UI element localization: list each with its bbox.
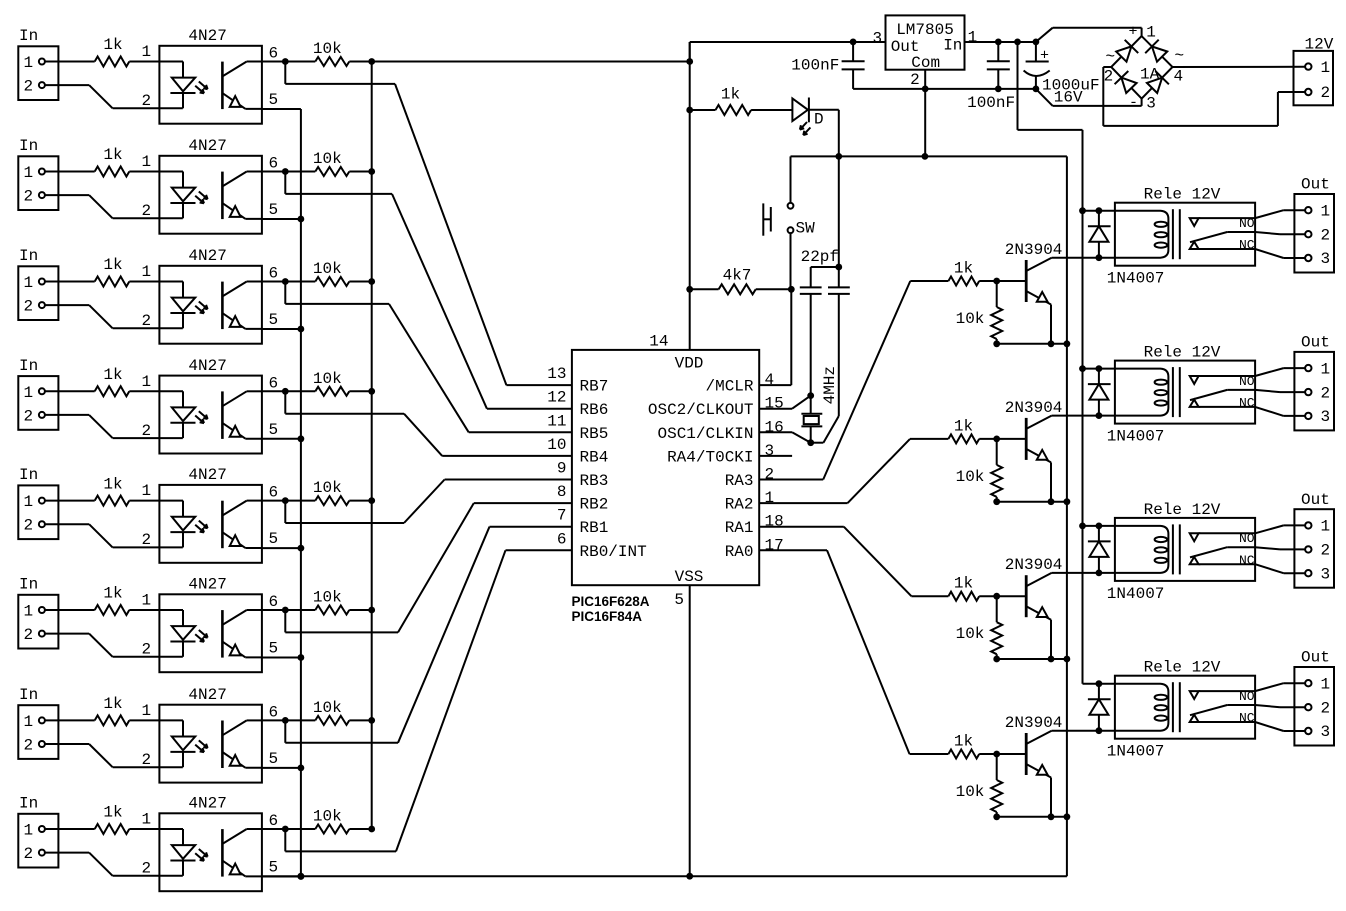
svg-text:In: In	[19, 137, 38, 155]
wire pullup bus to +5V	[372, 61, 690, 63]
svg-text:1: 1	[142, 43, 152, 61]
resistor R13 10k pullup	[315, 277, 349, 286]
junction base node 2	[993, 436, 1000, 443]
svg-text:4N27: 4N27	[188, 137, 226, 155]
svg-text:In: In	[19, 576, 38, 594]
svg-text:Rele 12V: Rele 12V	[1144, 186, 1221, 204]
bridge diode bottom-right	[1147, 78, 1162, 93]
driver 4 ground line	[997, 816, 1067, 818]
svg-text:10k: 10k	[956, 625, 985, 643]
wire NO to J13.1	[1255, 683, 1284, 691]
wire PIC RA3 to driver 1	[759, 479, 823, 481]
wire Q3 collector to relay coil	[1052, 572, 1115, 574]
svg-text:1: 1	[24, 493, 34, 511]
svg-text:1: 1	[24, 164, 34, 182]
wire J6.2 to U6 pin2	[45, 633, 89, 635]
svg-text:17: 17	[765, 536, 784, 554]
svg-text:1: 1	[24, 822, 34, 840]
svg-text:In: In	[19, 466, 38, 484]
wire VSS pin 5 to ground rail	[689, 585, 691, 876]
svg-text:RA0: RA0	[725, 543, 754, 561]
wire node to R18	[285, 828, 315, 830]
svg-text:RB6: RB6	[580, 401, 609, 419]
junction diode bottom 2	[1096, 412, 1103, 419]
svg-text:6: 6	[269, 265, 279, 283]
svg-text:Out: Out	[1301, 176, 1330, 194]
U6 phototransistor	[221, 610, 224, 658]
U5 LED emission arrows	[199, 521, 208, 529]
junction emitter ground 2	[1048, 498, 1055, 505]
relay RL4 core	[1172, 682, 1174, 732]
wire J2.2 to U2 pin2	[45, 194, 89, 196]
svg-text:1k: 1k	[954, 575, 973, 593]
resistor R20 1k base	[948, 434, 979, 443]
wire U3 pin5 to ground bus	[262, 328, 301, 330]
relay RL4 coil	[1115, 684, 1169, 731]
wire ground to bridge negative	[1036, 89, 1053, 106]
svg-text:3: 3	[1146, 94, 1156, 112]
input connector J3	[18, 266, 58, 320]
optocoupler U2 4N27 body	[159, 156, 262, 234]
svg-text:1k: 1k	[103, 36, 122, 54]
resistor R11 10k pullup	[315, 57, 349, 66]
svg-text:RB3: RB3	[580, 472, 609, 490]
bridge diode bottom-left	[1121, 78, 1136, 93]
wire NC to J11.3	[1255, 407, 1284, 416]
svg-text:10k: 10k	[956, 468, 985, 486]
svg-text:5: 5	[269, 91, 279, 109]
wire MCLR node to /MCLR pin4	[790, 289, 792, 385]
wire VDD pin 14 to +5V	[689, 42, 691, 350]
wire J5.2 to U5 pin2	[45, 523, 89, 525]
junction ground bus 6	[298, 654, 305, 661]
wire R7 to opto U7 pin1	[129, 719, 159, 721]
driver 2 ground line	[997, 501, 1067, 503]
resistor R24 10k	[996, 439, 998, 465]
svg-text:RB4: RB4	[580, 448, 609, 466]
svg-text:2: 2	[142, 422, 152, 440]
node opto8 collector	[282, 826, 289, 833]
wire Q3 emitter to ground	[1050, 620, 1052, 659]
junction emitter ground 3	[1048, 656, 1055, 663]
svg-text:Rele 12V: Rele 12V	[1144, 659, 1221, 677]
junction on +5V pullup bus 2	[368, 168, 375, 175]
svg-text:10k: 10k	[313, 479, 342, 497]
junction +5V at VDD column	[686, 58, 693, 65]
svg-text:VDD: VDD	[675, 354, 704, 372]
junction C2 top	[995, 39, 1002, 46]
svg-text:10k: 10k	[313, 370, 342, 388]
wire R22 to base node	[979, 753, 997, 755]
wire U10 pin2 Com	[924, 70, 926, 157]
wire R5 to opto U5 pin1	[129, 500, 159, 502]
svg-text:10k: 10k	[956, 783, 985, 801]
diode D2 1N4007	[1098, 211, 1100, 258]
wire regulator input rail	[965, 41, 1036, 43]
transistor Q4 2N3904	[1025, 733, 1028, 775]
junction on +5V pullup bus 1	[368, 58, 375, 65]
svg-text:RA2: RA2	[725, 496, 754, 514]
wire OSC2 pin15	[759, 408, 792, 410]
svg-text:1: 1	[1321, 518, 1331, 536]
svg-text:1: 1	[142, 702, 152, 720]
svg-text:1k: 1k	[103, 146, 122, 164]
svg-text:2: 2	[24, 188, 34, 206]
optocoupler U8 4N27 body	[159, 813, 262, 891]
svg-text:1N4007: 1N4007	[1107, 585, 1165, 603]
junction diode top 2	[1096, 365, 1103, 372]
optocoupler U5 4N27 body	[159, 485, 262, 563]
U5 phototransistor	[221, 501, 224, 549]
svg-text:6: 6	[269, 703, 279, 721]
junction diode top 3	[1096, 523, 1103, 530]
svg-text:10k: 10k	[313, 808, 342, 826]
relay RL1 body	[1115, 203, 1255, 266]
svg-text:1k: 1k	[103, 475, 122, 493]
wire bridge AC4 to J9.1	[1173, 66, 1306, 68]
junction VSS ground rail	[686, 873, 693, 880]
svg-text:PIC16F84A: PIC16F84A	[572, 609, 643, 624]
wire opto8 output to PIC pin	[284, 829, 286, 851]
wire U6 pin5 to ground bus	[262, 657, 301, 659]
input connector J9 12V	[1294, 51, 1334, 105]
resistor R17 1k	[716, 105, 752, 115]
svg-text:1k: 1k	[103, 585, 122, 603]
junction emitter ground 4	[1048, 813, 1055, 820]
svg-text:RB7: RB7	[580, 378, 609, 396]
junction +12V relay 3	[1079, 523, 1086, 530]
svg-text:1: 1	[24, 274, 34, 292]
wire common to J11.2	[1255, 390, 1280, 392]
junction 10k bottom 2	[993, 498, 1000, 505]
wire node to R14	[285, 390, 315, 392]
wire Q1 emitter to ground	[1050, 305, 1052, 344]
capacitor C5 22pf	[828, 286, 850, 288]
wire Q4 emitter to ground	[1050, 778, 1052, 817]
svg-text:Rele 12V: Rele 12V	[1144, 344, 1221, 362]
svg-text:10k: 10k	[313, 150, 342, 168]
optocoupler U4 4N27 body	[159, 376, 262, 454]
RA4/T0CKI pin3 stub	[759, 455, 792, 457]
U6 LED emission arrows	[199, 630, 208, 638]
resistor R21 1k base	[948, 592, 979, 601]
wire +5V to R18	[690, 288, 719, 290]
svg-text:3: 3	[1321, 250, 1331, 268]
wire R8 to opto U8 pin1	[129, 828, 159, 830]
wire U8 pin5 to ground bus	[262, 876, 301, 878]
junction Com pin2	[922, 86, 929, 93]
capacitor C1 100nF	[852, 42, 854, 61]
wire C5 bottom to OSC1 node	[838, 294, 840, 416]
wire J3.2 to U3 pin2	[45, 304, 89, 306]
svg-text:In: In	[19, 27, 38, 45]
wire +12V bus to relay RL2 coil	[1083, 368, 1115, 370]
junction ground bus driver 4	[1064, 813, 1071, 820]
junction ground bus driver 2	[1064, 498, 1071, 505]
wire U8 pin6 to node	[262, 828, 285, 830]
svg-text:1N4007: 1N4007	[1107, 428, 1165, 446]
wire opto5 output to PIC pin	[284, 501, 286, 523]
input connector J2	[18, 156, 58, 210]
svg-text:In: In	[19, 795, 38, 813]
svg-text:2N3904: 2N3904	[1005, 399, 1063, 417]
resistor R5 1k	[95, 496, 130, 506]
ground bus left vertical	[300, 109, 302, 876]
svg-text:3: 3	[765, 442, 775, 460]
wire U7 pin5 to ground bus	[262, 767, 301, 769]
svg-text:6: 6	[269, 374, 279, 392]
svg-text:SW: SW	[796, 220, 816, 238]
svg-text:1N4007: 1N4007	[1107, 270, 1165, 288]
svg-text:1: 1	[24, 54, 34, 72]
diode D5 1N4007	[1098, 684, 1100, 731]
capacitor C2 100nF	[997, 42, 999, 61]
wire PIC RA1 to driver 3	[759, 526, 844, 528]
svg-text:1: 1	[142, 811, 152, 829]
svg-text:6: 6	[269, 45, 279, 63]
svg-text:6: 6	[269, 593, 279, 611]
svg-text:5: 5	[269, 640, 279, 658]
transistor Q3 2N3904	[1025, 575, 1028, 617]
optocoupler U6 4N27 body	[159, 594, 262, 672]
output connector J12	[1294, 509, 1334, 588]
svg-text:1k: 1k	[103, 256, 122, 274]
svg-text:In: In	[19, 357, 38, 375]
junction diode bottom 4	[1096, 727, 1103, 734]
wire base node to Q4	[997, 753, 1026, 755]
resistor R25 10k	[996, 596, 998, 622]
wire U4 pin5 to ground bus	[262, 438, 301, 440]
input connector J1	[18, 46, 58, 100]
junction diode bottom 1	[1096, 254, 1103, 261]
svg-text:1: 1	[1321, 202, 1331, 220]
svg-text:16: 16	[765, 418, 784, 436]
relay RL2 armature	[1190, 390, 1227, 400]
U8 phototransistor	[221, 829, 224, 877]
svg-text:1: 1	[142, 482, 152, 500]
junction OSC1 node	[807, 439, 814, 446]
driver 3 ground line	[997, 658, 1067, 660]
svg-text:1k: 1k	[103, 804, 122, 822]
U8 LED emission arrows	[199, 849, 208, 857]
resistor R17 10k pullup	[315, 716, 349, 725]
relay RL1 core	[1172, 209, 1174, 259]
wire J8.2 to U8 pin2	[45, 852, 89, 854]
wire U4 pin6 to node	[262, 390, 285, 392]
optocoupler U3 4N27 body	[159, 266, 262, 344]
wire J7.2 to U7 pin2	[45, 743, 89, 745]
node opto6 collector	[282, 607, 289, 614]
svg-text:10k: 10k	[313, 589, 342, 607]
junction ground bus driver 1	[1064, 340, 1071, 347]
diode D4 1N4007	[1098, 526, 1100, 573]
svg-text:2: 2	[24, 517, 34, 535]
svg-text:1: 1	[1321, 675, 1331, 693]
ground line from Com	[791, 155, 1067, 157]
svg-text:NC: NC	[1239, 711, 1255, 726]
svg-text:2: 2	[142, 860, 152, 878]
junction +12V relay 1	[1079, 207, 1086, 214]
relay RL1 armature	[1190, 232, 1227, 242]
svg-text:15: 15	[765, 395, 784, 413]
resistor R19 1k base	[948, 277, 979, 286]
wire opto3 output to PIC pin	[284, 282, 286, 304]
svg-text:6: 6	[269, 812, 279, 830]
svg-text:RA3: RA3	[725, 472, 754, 490]
resistor R2 1k	[95, 167, 130, 177]
svg-text:2: 2	[24, 737, 34, 755]
wire Q1 collector to relay coil	[1052, 257, 1115, 259]
LED D1	[792, 99, 808, 122]
resistor R4 1k	[95, 386, 130, 396]
input connector J8	[18, 814, 58, 868]
svg-text:3: 3	[1321, 408, 1331, 426]
svg-text:8: 8	[557, 483, 567, 501]
junction base node 4	[993, 751, 1000, 758]
input connector J6	[18, 595, 58, 649]
wire U6 pin6 to node	[262, 609, 285, 611]
wire R14 to +5V bus	[349, 390, 371, 392]
U7 phototransistor	[221, 721, 224, 769]
U2 phototransistor	[221, 172, 224, 220]
resistor R3 1k	[95, 277, 130, 287]
svg-text:In: In	[19, 686, 38, 704]
svg-text:10k: 10k	[956, 310, 985, 328]
junction diode top 1	[1096, 207, 1103, 214]
resistor R15 10k pullup	[315, 496, 349, 505]
svg-text:1k: 1k	[954, 417, 973, 435]
input connector J7	[18, 705, 58, 759]
wire J4.1 to R4	[45, 390, 95, 392]
relay RL3 body	[1115, 518, 1255, 581]
svg-text:6: 6	[557, 530, 567, 548]
bottom ground rail	[262, 875, 1067, 877]
svg-text:2: 2	[1104, 67, 1114, 85]
wire Q2 collector to relay coil	[1052, 415, 1115, 417]
svg-text:NO: NO	[1239, 216, 1255, 231]
svg-text:+: +	[1040, 48, 1049, 65]
wire node to R16	[285, 609, 315, 611]
svg-text:1N4007: 1N4007	[1107, 743, 1165, 761]
junction 10k bottom 1	[993, 340, 1000, 347]
svg-text:/MCLR: /MCLR	[705, 378, 753, 396]
svg-text:3: 3	[872, 29, 882, 47]
svg-text:OSC1/CLKIN: OSC1/CLKIN	[657, 425, 753, 443]
svg-text:1: 1	[1321, 360, 1331, 378]
svg-text:10k: 10k	[313, 260, 342, 278]
wire node to R17	[285, 719, 315, 721]
svg-text:10k: 10k	[313, 40, 342, 58]
svg-text:4N27: 4N27	[188, 27, 226, 45]
U3 phototransistor	[221, 282, 224, 330]
junction 22pf top	[835, 264, 842, 271]
svg-text:3: 3	[1321, 565, 1331, 583]
wire U7 pin6 to node	[262, 719, 285, 721]
svg-text:RB2: RB2	[580, 496, 609, 514]
svg-text:PIC16F628A: PIC16F628A	[572, 594, 650, 609]
relay RL2 body	[1115, 361, 1255, 424]
svg-text:5: 5	[674, 591, 684, 609]
+12V bus	[1017, 42, 1019, 130]
junction diode top 4	[1096, 680, 1103, 687]
svg-text:2: 2	[1321, 542, 1331, 560]
wire Q2 emitter to ground	[1050, 462, 1052, 501]
node opto3 collector	[282, 278, 289, 285]
resistor R7 1k	[95, 715, 130, 725]
wire node to R12	[285, 171, 315, 173]
node opto2 collector	[282, 168, 289, 175]
junction +5V to R17	[686, 107, 693, 114]
svg-text:+: +	[1129, 24, 1138, 41]
relay RL3 NC contact	[1190, 557, 1199, 564]
svg-text:5: 5	[269, 859, 279, 877]
D1 emission arrows	[800, 122, 807, 130]
svg-text:2N3904: 2N3904	[1005, 714, 1063, 732]
resistor R26 10k	[996, 754, 998, 780]
wire R1 to opto U1 pin1	[129, 61, 159, 63]
svg-text:1: 1	[142, 373, 152, 391]
svg-text:4: 4	[1174, 67, 1184, 85]
svg-text:5: 5	[269, 750, 279, 768]
junction ground bus 5	[298, 545, 305, 552]
U1 internal LED	[159, 61, 183, 63]
U1 LED emission arrows	[199, 82, 208, 90]
svg-text:1k: 1k	[721, 86, 740, 104]
svg-text:2N3904: 2N3904	[1005, 241, 1063, 259]
svg-text:1: 1	[24, 603, 34, 621]
svg-text:2: 2	[142, 202, 152, 220]
svg-text:10k: 10k	[313, 699, 342, 717]
svg-text:1: 1	[24, 713, 34, 731]
wire NC to J10.3	[1255, 249, 1284, 258]
junction base node 3	[993, 593, 1000, 600]
svg-text:~: ~	[1175, 47, 1185, 65]
svg-text:2: 2	[24, 845, 34, 863]
svg-text:RB1: RB1	[580, 519, 609, 537]
wire +12V bus to relay RL4 coil	[1083, 683, 1115, 685]
bridge diode top-left	[1116, 46, 1131, 61]
wire node to R13	[285, 281, 315, 283]
svg-text:4MHz: 4MHz	[821, 366, 839, 404]
junction 10k bottom 4	[993, 813, 1000, 820]
svg-text:2N3904: 2N3904	[1005, 556, 1063, 574]
junction +12V relay 2	[1079, 365, 1086, 372]
svg-text:RA4/T0CKI: RA4/T0CKI	[667, 448, 753, 466]
U7 LED emission arrows	[199, 740, 208, 748]
svg-text:1: 1	[968, 28, 978, 46]
wire J1.1 to R1	[45, 61, 95, 63]
wire J4.2 to U4 pin2	[45, 414, 89, 416]
wire base node to Q3	[997, 595, 1026, 597]
resistor R12 10k pullup	[315, 167, 349, 176]
junction ground bus 4	[298, 435, 305, 442]
junction C1 top	[850, 39, 857, 46]
junction +12V takeoff	[1014, 39, 1021, 46]
junction on +5V pullup bus 7	[368, 717, 375, 724]
U2 LED emission arrows	[199, 192, 208, 200]
svg-text:5: 5	[269, 530, 279, 548]
U8 internal LED	[159, 828, 183, 830]
svg-text:2: 2	[142, 641, 152, 659]
diode D3 1N4007	[1098, 369, 1100, 416]
wire common to J12.2	[1255, 547, 1280, 549]
capacitor C3 1000uF 16V	[1035, 42, 1037, 62]
svg-text:16V: 16V	[1054, 89, 1083, 107]
wire +12V bus to relay RL1 coil	[1083, 210, 1115, 212]
svg-text:1k: 1k	[103, 366, 122, 384]
svg-text:10: 10	[547, 436, 566, 454]
wire R19 to base node	[979, 280, 997, 282]
